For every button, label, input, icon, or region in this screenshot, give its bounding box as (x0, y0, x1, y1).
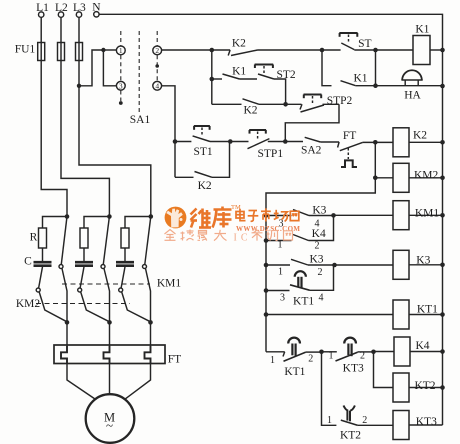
svg-text:L2: L2 (55, 2, 68, 14)
svg-text:KM1: KM1 (415, 208, 440, 220)
svg-text:~: ~ (106, 418, 113, 433)
svg-text:KT3: KT3 (343, 363, 364, 375)
svg-text:C: C (24, 256, 32, 268)
svg-text:N: N (92, 2, 101, 14)
svg-text:3: 3 (280, 293, 285, 304)
svg-text:KT2: KT2 (340, 430, 361, 442)
svg-text:K3: K3 (312, 205, 326, 217)
svg-text:4: 4 (315, 219, 320, 230)
svg-text:KM2: KM2 (16, 298, 41, 310)
svg-text:FT: FT (168, 354, 181, 366)
svg-text:L1: L1 (36, 2, 49, 14)
svg-text:KT1: KT1 (284, 366, 305, 378)
svg-text:1: 1 (278, 267, 283, 278)
svg-text:1: 1 (119, 46, 123, 55)
svg-text:KT2: KT2 (414, 380, 435, 392)
svg-text:KT1: KT1 (417, 304, 438, 316)
svg-text:KT3: KT3 (416, 416, 437, 428)
svg-text:2: 2 (308, 354, 313, 365)
svg-text:L3: L3 (73, 2, 86, 14)
svg-text:1: 1 (270, 355, 275, 366)
svg-text:2: 2 (318, 267, 323, 278)
svg-text:2: 2 (155, 46, 159, 55)
svg-text:K3: K3 (416, 255, 430, 267)
svg-text:K2: K2 (243, 105, 257, 117)
svg-text:ST2: ST2 (277, 69, 296, 81)
svg-text:STP2: STP2 (327, 95, 353, 107)
svg-text:K1: K1 (353, 73, 367, 85)
svg-text:1: 1 (329, 351, 334, 362)
svg-text:2: 2 (315, 241, 320, 252)
svg-text:K3: K3 (309, 254, 323, 266)
svg-text:K2: K2 (232, 38, 246, 50)
svg-text:K1: K1 (415, 24, 429, 36)
svg-text:R: R (30, 232, 38, 244)
svg-text:SA2: SA2 (301, 145, 322, 157)
svg-text:2: 2 (362, 415, 367, 426)
svg-text:1: 1 (327, 415, 332, 426)
svg-text:K4: K4 (312, 228, 326, 240)
svg-text:K2: K2 (198, 180, 212, 192)
svg-text:K2: K2 (413, 130, 427, 142)
svg-text:FT: FT (343, 130, 356, 142)
svg-text:K1: K1 (232, 66, 246, 78)
svg-text:2: 2 (360, 351, 365, 362)
svg-text:FU1: FU1 (15, 44, 36, 56)
svg-text:K4: K4 (415, 340, 429, 352)
svg-text:KM1: KM1 (157, 278, 182, 290)
svg-text:4: 4 (155, 81, 159, 90)
svg-text:3: 3 (119, 81, 123, 90)
svg-text:ST1: ST1 (194, 146, 213, 158)
svg-text:4: 4 (319, 293, 324, 304)
svg-text:KM2: KM2 (414, 170, 439, 182)
svg-text:IC: IC (234, 233, 252, 244)
svg-text:1: 1 (278, 240, 283, 251)
svg-text:ST: ST (358, 38, 371, 50)
svg-text:STP1: STP1 (258, 148, 284, 160)
svg-text:KT1: KT1 (293, 296, 314, 308)
svg-text:HA: HA (404, 90, 421, 102)
svg-text:SA1: SA1 (130, 114, 151, 126)
